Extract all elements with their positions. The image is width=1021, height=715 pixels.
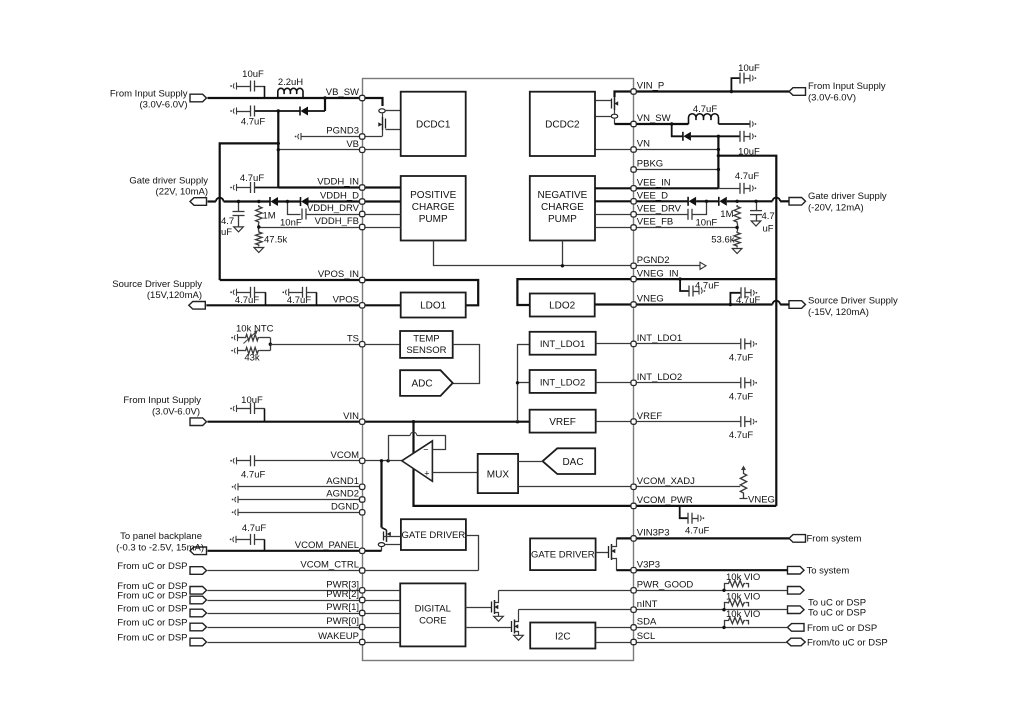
wire PWR[2] row bbox=[208, 600, 363, 602]
op-amp U1 VCOM amp bbox=[402, 441, 433, 481]
svg-text:VCOM: VCOM bbox=[331, 450, 360, 461]
label 4.7uF (VNEG_IN) bbox=[695, 281, 719, 292]
label POSITIVE CHARGE PUMP bbox=[410, 190, 456, 225]
svg-text:To panel backplane: To panel backplane bbox=[120, 531, 202, 542]
label 4.7uF (VCOM) bbox=[241, 470, 265, 481]
diode D5 VEE pump bbox=[688, 197, 696, 206]
wire VCOM to panel switch bbox=[380, 461, 382, 528]
svg-text:nINT: nINT bbox=[637, 599, 658, 610]
connector panel backplane bbox=[190, 547, 207, 555]
pin VDDH_D bbox=[360, 199, 365, 204]
label 4.7uF (INT_LDO2) bbox=[729, 391, 753, 402]
connector to system bbox=[788, 566, 805, 574]
label Gate driver Supply 22V bbox=[129, 176, 208, 198]
svg-text:CHARGE: CHARGE bbox=[412, 202, 455, 213]
label 4.7uF (VCOM_PANEL) bbox=[242, 523, 266, 534]
wire VEE_FB row bbox=[634, 226, 739, 229]
wire VIN3P3 internal bbox=[617, 537, 634, 539]
pin label VCOM_PANEL bbox=[295, 540, 359, 551]
label To system bbox=[807, 566, 850, 577]
label TEMP SENSOR bbox=[406, 334, 446, 357]
label 4.7uF (INT_LDO1) bbox=[729, 352, 753, 363]
pin label VB bbox=[346, 139, 359, 150]
wire SCL internal bbox=[595, 642, 633, 644]
svg-text:VIN_P: VIN_P bbox=[637, 81, 664, 92]
svg-text:LDO1: LDO1 bbox=[420, 301, 447, 312]
svg-text:From uC or DSP: From uC or DSP bbox=[117, 633, 187, 644]
svg-text:uF: uF bbox=[763, 224, 774, 235]
svg-text:SENSOR: SENSOR bbox=[406, 345, 446, 356]
svg-text:V3P3: V3P3 bbox=[637, 559, 660, 570]
svg-text:(-15V, 120mA): (-15V, 120mA) bbox=[808, 307, 869, 318]
svg-text:4.7uF: 4.7uF bbox=[287, 295, 311, 306]
connector SDA in bbox=[788, 624, 805, 632]
pin label V3P3 bbox=[637, 559, 660, 570]
ground (47.5k) bbox=[254, 248, 264, 253]
svg-text:(15V,120mA): (15V,120mA) bbox=[147, 290, 202, 301]
wire VN_SW internal bbox=[615, 123, 634, 125]
connector input supply mid-left bbox=[190, 418, 207, 426]
wire WAKEUP row bbox=[208, 642, 363, 644]
block GATE DRIVER right bbox=[530, 538, 596, 570]
pin label PWR_GOOD bbox=[637, 580, 694, 591]
pin INT_LDO1 bbox=[631, 341, 636, 346]
svg-text:4.7uF: 4.7uF bbox=[729, 352, 753, 363]
wire VREF to pin bbox=[596, 421, 634, 423]
pin label VEE_D bbox=[637, 191, 668, 202]
wire TEMP SENSOR to ADC bbox=[453, 345, 480, 384]
pin label TS bbox=[347, 333, 359, 344]
svg-text:SCL: SCL bbox=[637, 631, 655, 642]
ground (Q5) bbox=[494, 616, 504, 621]
label LDO2 bbox=[549, 301, 576, 312]
svg-text:4.7uF: 4.7uF bbox=[242, 523, 266, 534]
wire INT_LDO1 to pin bbox=[596, 343, 634, 345]
capacitor C 4.7uF (VNEG_IN) bbox=[678, 277, 705, 296]
svg-text:DCDC2: DCDC2 bbox=[545, 120, 580, 131]
wire VIN row bbox=[208, 421, 363, 423]
wire VREF row bbox=[634, 421, 741, 423]
svg-text:4.7: 4.7 bbox=[762, 211, 775, 222]
wire VB rail to VPOS_IN rail bbox=[220, 142, 280, 280]
svg-text:VN_SW: VN_SW bbox=[637, 113, 671, 124]
connector SCL bidir bbox=[787, 638, 806, 646]
capacitor C 4.7uF (INT_LDO1) bbox=[741, 338, 757, 349]
wire VPOS row bbox=[206, 304, 362, 306]
pin VEE_D bbox=[631, 199, 636, 204]
IC boundary TPS65185 bbox=[363, 79, 634, 661]
wire VB internal bbox=[362, 149, 401, 151]
svg-text:VIN: VIN bbox=[343, 411, 359, 422]
svg-text:43k: 43k bbox=[244, 353, 260, 364]
wire op-amp feedback bbox=[388, 432, 446, 461]
wire VIN_P row bbox=[634, 90, 789, 92]
pin label PWR[2] bbox=[326, 589, 359, 600]
pin label VDDH_IN bbox=[317, 177, 359, 188]
pin WAKEUP bbox=[360, 639, 365, 644]
label 4.7uF (VPOS b) bbox=[287, 295, 311, 306]
wire VN rail to VNEG branch bbox=[717, 154, 777, 279]
pin label AGND1 bbox=[326, 476, 359, 487]
ground (VEE_D cap) bbox=[751, 221, 761, 226]
svg-text:PGND3: PGND3 bbox=[326, 126, 359, 137]
label MUX bbox=[487, 470, 510, 481]
wire VDDH_FB internal bbox=[362, 227, 401, 229]
svg-text:From uC or DSP: From uC or DSP bbox=[117, 618, 187, 629]
pin label PGND3 bbox=[326, 126, 359, 137]
label 4.7uF (VEE_IN) bbox=[735, 171, 759, 182]
svg-text:MUX: MUX bbox=[487, 470, 510, 481]
label From system bbox=[807, 534, 862, 545]
svg-text:To uC or DSP: To uC or DSP bbox=[808, 608, 866, 619]
block POSITIVE CHARGE PUMP bbox=[401, 176, 466, 241]
label From uC or DSP (VCOM_CTRL) bbox=[117, 561, 187, 572]
svg-text:From uC or DSP: From uC or DSP bbox=[117, 604, 187, 615]
block DAC bbox=[543, 448, 596, 474]
capacitor C 4.7uF (VPOS b) bbox=[282, 287, 316, 306]
wire DGND bbox=[232, 509, 363, 516]
pin VDDH_FB bbox=[360, 224, 365, 229]
wire VPOS_IN row bbox=[220, 279, 363, 281]
pin VIN_P bbox=[631, 89, 636, 94]
thermistor RT 10k NTC bbox=[231, 331, 270, 344]
capacitor C 4.7uF (VCOM) bbox=[230, 455, 362, 466]
svg-text:47.5k: 47.5k bbox=[264, 235, 287, 246]
svg-text:PWR[1]: PWR[1] bbox=[326, 602, 359, 613]
svg-text:NEGATIVE: NEGATIVE bbox=[537, 190, 587, 201]
wire VCOM_PANEL row bbox=[208, 550, 363, 552]
label From Input Supply (top-right) bbox=[808, 81, 886, 104]
label 4.7uF (VEE_D) bbox=[762, 211, 775, 235]
svg-text:(-0.3 to -2.5V, 15mA): (-0.3 to -2.5V, 15mA) bbox=[116, 543, 204, 554]
wire PWR[1] internal bbox=[362, 613, 400, 615]
wire VCOM_PWR row bbox=[634, 505, 777, 507]
wire VEE_IN row bbox=[634, 187, 740, 189]
wire VEE_FB internal bbox=[595, 227, 634, 229]
wire VDDH_IN row bbox=[278, 186, 362, 188]
pin VDDH_IN bbox=[360, 185, 365, 190]
pin VEE_IN bbox=[631, 186, 636, 191]
svg-text:PUMP: PUMP bbox=[548, 214, 577, 225]
label DCDC1 bbox=[416, 120, 451, 131]
svg-text:Gate driver Supply: Gate driver Supply bbox=[808, 191, 887, 202]
label I2C bbox=[555, 632, 571, 643]
pin PBKG bbox=[631, 167, 636, 172]
wire VB pin bbox=[277, 148, 363, 151]
wire PGND2 row bbox=[634, 262, 706, 269]
connector gate driver supply left bbox=[190, 198, 207, 206]
pin PWR[2] bbox=[360, 597, 365, 602]
label From/to uC or DSP bbox=[807, 638, 888, 649]
svg-text:10nF: 10nF bbox=[280, 218, 302, 229]
svg-text:CORE: CORE bbox=[419, 616, 446, 627]
block I2C bbox=[530, 623, 595, 649]
pin VPOS bbox=[360, 303, 365, 308]
wire VNEG_IN internal bbox=[517, 279, 633, 305]
svg-text:VREF: VREF bbox=[549, 417, 576, 428]
wire DAC to MUX bbox=[518, 461, 543, 463]
wire VIN internal bbox=[362, 420, 529, 423]
block LDO1 bbox=[401, 293, 466, 318]
pin AGND2 bbox=[360, 497, 365, 502]
pin label VB_SW bbox=[326, 87, 359, 98]
label NEGATIVE CHARGE PUMP bbox=[537, 190, 587, 225]
wire V3P3 internal bbox=[617, 569, 634, 571]
svg-text:Source Driver Supply: Source Driver Supply bbox=[808, 296, 898, 307]
svg-text:10k VIO: 10k VIO bbox=[726, 572, 760, 583]
wire VDDH_D row bbox=[208, 198, 363, 202]
label LDO1 bbox=[420, 301, 447, 312]
resistor R 53.6k bbox=[734, 231, 740, 248]
wire SDA internal bbox=[595, 627, 633, 629]
svg-text:VEE_FB: VEE_FB bbox=[637, 217, 673, 228]
pin label AGND2 bbox=[326, 489, 359, 500]
pin label VNEG bbox=[637, 294, 664, 305]
capacitor C 4.7uF (VB output) bbox=[230, 106, 278, 117]
pin label nINT bbox=[637, 599, 658, 610]
pin label VCOM_XADJ bbox=[637, 476, 695, 487]
wire VN internal bbox=[595, 149, 634, 151]
pin label VEE_IN bbox=[637, 178, 671, 189]
wire PWR[3] internal bbox=[362, 590, 400, 592]
svg-text:GATE DRIVER: GATE DRIVER bbox=[402, 530, 466, 541]
svg-text:Source Driver Supply: Source Driver Supply bbox=[112, 279, 202, 290]
label 10k VIO (SDA) bbox=[726, 609, 760, 620]
pin TS bbox=[360, 342, 365, 347]
svg-text:From system: From system bbox=[807, 534, 862, 545]
label From uC or DSP (PWR[2]) bbox=[117, 591, 187, 602]
wire VIN rail to VCOM_PWR bbox=[414, 422, 634, 506]
connector from uC (PWR[1]) bbox=[190, 609, 207, 617]
label 10uF (VIN) bbox=[241, 395, 263, 406]
pin VEE_FB bbox=[631, 225, 636, 230]
svg-text:4.7uF: 4.7uF bbox=[235, 295, 259, 306]
pin VCOM_PWR bbox=[631, 503, 636, 508]
capacitor C 4.7uF (VDDH_D) bbox=[233, 200, 245, 227]
label Source Driver Supply -15V bbox=[808, 296, 898, 319]
svg-text:(3.0V-6.0V): (3.0V-6.0V) bbox=[139, 100, 187, 111]
wire PGND3 internal bbox=[362, 136, 382, 138]
label GATE DRIVER right bbox=[531, 550, 595, 561]
wire nINT internal bbox=[519, 609, 634, 611]
svg-text:PWR_GOOD: PWR_GOOD bbox=[637, 580, 694, 591]
pin VDDH_DRV bbox=[360, 211, 365, 216]
wire VNEG internal bbox=[595, 303, 634, 305]
connector input supply top-left bbox=[190, 94, 207, 102]
svg-text:VNEG_IN: VNEG_IN bbox=[637, 268, 679, 279]
block DIGITAL CORE bbox=[400, 583, 465, 646]
svg-text:From Input Supply: From Input Supply bbox=[808, 81, 886, 92]
ground (Q6) bbox=[514, 635, 524, 640]
pin label PWR[1] bbox=[326, 602, 359, 613]
label 4.7uF (VREF) bbox=[729, 430, 753, 441]
wire PBKG row bbox=[634, 168, 721, 171]
wire VCOM_CTRL internal bbox=[362, 536, 478, 571]
transistor Q6 (nINT open drain) bbox=[466, 610, 519, 636]
label To uC or DSP (2) bbox=[808, 608, 866, 619]
svg-text:From/to uC or DSP: From/to uC or DSP bbox=[807, 638, 888, 649]
label From uC or DSP (PWR[1]) bbox=[117, 604, 187, 615]
svg-text:POSITIVE: POSITIVE bbox=[410, 190, 456, 201]
pin label VPOS bbox=[333, 295, 359, 306]
label 4.7uF (VDDH) bbox=[221, 216, 234, 238]
wire VCOM_CTRL row bbox=[208, 570, 363, 572]
svg-text:DCDC1: DCDC1 bbox=[416, 120, 451, 131]
label 4.7uF (VDDH_IN) bbox=[240, 173, 264, 184]
label VNEG (trimmer) bbox=[748, 495, 775, 506]
svg-text:10uF: 10uF bbox=[242, 69, 264, 80]
svg-text:SDA: SDA bbox=[637, 617, 657, 628]
svg-text:AGND2: AGND2 bbox=[326, 489, 359, 500]
pin label SCL bbox=[637, 631, 655, 642]
pin label VDDH_DRV bbox=[307, 203, 360, 214]
capacitor C 10uF (VN) bbox=[717, 131, 757, 142]
svg-text:VB_SW: VB_SW bbox=[326, 87, 359, 98]
label 10uF (VIN_P) bbox=[738, 63, 760, 74]
wire input supply to VB_SW bbox=[208, 97, 363, 99]
capacitor C 4.7uF (VDDH_IN) bbox=[230, 182, 278, 193]
label 4.7uF (VPOS a) bbox=[235, 295, 259, 306]
wire nINT row bbox=[634, 609, 788, 611]
svg-text:4.7uF: 4.7uF bbox=[735, 171, 759, 182]
svg-text:VDDH_DRV: VDDH_DRV bbox=[307, 203, 360, 214]
label GATE DRIVER left bbox=[402, 530, 466, 541]
svg-text:VNEG: VNEG bbox=[637, 294, 664, 305]
connector input supply top-right bbox=[789, 88, 806, 96]
label 53.6k bbox=[711, 235, 734, 246]
inductor L 2.2uH bbox=[278, 88, 303, 98]
connector from uC (PWR[3]) bbox=[190, 587, 207, 595]
pin label PBKG bbox=[637, 159, 663, 170]
pin label PGND2 bbox=[637, 255, 670, 266]
pin label VEE_FB bbox=[637, 217, 673, 228]
label From Input Supply (mid-left) bbox=[123, 395, 201, 418]
pin VCOM_PANEL bbox=[360, 548, 365, 553]
svg-text:From uC or DSP: From uC or DSP bbox=[117, 591, 187, 602]
pin VPOS_IN bbox=[360, 277, 365, 282]
transistor Q4 (V3P3 switch) bbox=[596, 539, 617, 571]
svg-text:Gate driver Supply: Gate driver Supply bbox=[129, 176, 208, 187]
svg-text:4.7uF: 4.7uF bbox=[241, 117, 265, 128]
svg-text:(3.0V-6.0V): (3.0V-6.0V) bbox=[152, 407, 200, 418]
wire PWR[3] row bbox=[208, 590, 363, 592]
resistor R 43k bbox=[231, 347, 270, 354]
pin PWR_GOOD bbox=[631, 588, 636, 593]
svg-text:VCOM_CTRL: VCOM_CTRL bbox=[300, 560, 359, 571]
wire VEE_IN internal bbox=[595, 187, 634, 189]
svg-text:PBKG: PBKG bbox=[637, 159, 663, 170]
wire VIN3P3 row bbox=[634, 537, 789, 539]
pin VIN bbox=[360, 419, 365, 424]
svg-text:From uC or DSP: From uC or DSP bbox=[117, 561, 187, 572]
svg-text:10uF: 10uF bbox=[241, 395, 263, 406]
label 10k NTC bbox=[236, 324, 274, 335]
svg-text:VDDH_IN: VDDH_IN bbox=[317, 177, 359, 188]
pin VNEG_IN bbox=[631, 276, 636, 281]
node VN rail bbox=[717, 136, 719, 188]
pin label VCOM_PWR bbox=[637, 495, 693, 506]
svg-text:VCOM_PWR: VCOM_PWR bbox=[637, 495, 693, 506]
pin label PWR[3] bbox=[326, 580, 359, 591]
wire PWR[1] row bbox=[208, 613, 363, 615]
svg-text:AGND1: AGND1 bbox=[326, 476, 359, 487]
svg-text:4.7uF: 4.7uF bbox=[240, 173, 264, 184]
capacitor C 4.7uF (VPOS a) bbox=[230, 287, 266, 306]
svg-text:INT_LDO1: INT_LDO1 bbox=[637, 333, 682, 344]
svg-text:PGND2: PGND2 bbox=[637, 255, 670, 266]
pin VNEG bbox=[631, 302, 636, 307]
svg-text:10k VIO: 10k VIO bbox=[726, 591, 760, 602]
wire INT_LDO2 row bbox=[634, 382, 741, 384]
block LDO2 bbox=[530, 294, 595, 317]
svg-text:WAKEUP: WAKEUP bbox=[318, 631, 359, 642]
label From uC or DSP (SDA) bbox=[807, 623, 877, 634]
capacitor C 4.7uF (VEE_IN) bbox=[740, 183, 756, 194]
pin label INT_LDO2 bbox=[637, 372, 682, 383]
wire VEE_DRV internal bbox=[595, 214, 634, 216]
label DIGITAL CORE bbox=[415, 604, 451, 627]
wire PWR_GOOD internal bbox=[499, 590, 634, 592]
svg-text:−: − bbox=[423, 445, 428, 455]
pin VCOM bbox=[360, 458, 365, 463]
pin PWR[3] bbox=[360, 588, 365, 593]
svg-text:TS: TS bbox=[347, 333, 359, 344]
wire AGND2 bbox=[232, 496, 363, 503]
capacitor C 4.7uF (VEE_D) bbox=[750, 200, 762, 221]
svg-text:From Input Supply: From Input Supply bbox=[110, 89, 188, 100]
connector from uC (PWR[0]) bbox=[190, 623, 207, 631]
pin label INT_LDO1 bbox=[637, 333, 682, 344]
wire INT_LDO1 row bbox=[634, 343, 741, 345]
svg-text:(-20V, 12mA): (-20V, 12mA) bbox=[808, 202, 864, 213]
resistor R 1M (VEE FB) bbox=[734, 200, 740, 231]
svg-text:4.7: 4.7 bbox=[221, 216, 234, 227]
capacitor C 4.7uF (VREF) bbox=[741, 416, 757, 427]
svg-text:To system: To system bbox=[807, 566, 850, 577]
pin label SDA bbox=[637, 617, 657, 628]
pin label PWR[0] bbox=[326, 616, 359, 627]
wire PGND2 internal bbox=[434, 241, 634, 268]
svg-text:CHARGE: CHARGE bbox=[541, 202, 584, 213]
svg-text:VCOM_XADJ: VCOM_XADJ bbox=[637, 476, 695, 487]
pin INT_LDO2 bbox=[631, 380, 636, 385]
svg-text:(3.0V-6.0V): (3.0V-6.0V) bbox=[808, 93, 856, 104]
pin label VN bbox=[637, 139, 650, 150]
svg-text:4.7uF: 4.7uF bbox=[729, 391, 753, 402]
svg-text:DGND: DGND bbox=[331, 502, 359, 513]
block DCDC2 bbox=[530, 92, 595, 156]
block TEMP SENSOR bbox=[400, 331, 453, 358]
wire VNEG row bbox=[634, 301, 789, 305]
diode D4 (VN) bbox=[672, 124, 740, 141]
svg-text:1M: 1M bbox=[720, 209, 733, 220]
label 10nF (VEE) bbox=[696, 217, 718, 228]
wire INT_LDO2 to pin bbox=[596, 382, 634, 384]
svg-text:PWR[2]: PWR[2] bbox=[326, 589, 359, 600]
svg-text:LDO2: LDO2 bbox=[549, 301, 576, 312]
label 1M bbox=[263, 211, 276, 222]
pin label VCOM bbox=[331, 450, 360, 461]
svg-text:TEMP: TEMP bbox=[413, 334, 439, 345]
diode D1 boost bbox=[278, 107, 325, 116]
resistor R 47.5k bbox=[256, 231, 262, 247]
pin VCOM_CTRL bbox=[360, 568, 365, 573]
svg-text:10nF: 10nF bbox=[696, 217, 718, 228]
label To panel backplane bbox=[116, 531, 204, 554]
pin VN_SW bbox=[631, 121, 636, 126]
pin V3P3 bbox=[631, 568, 636, 573]
svg-text:4.7uF: 4.7uF bbox=[241, 470, 265, 481]
